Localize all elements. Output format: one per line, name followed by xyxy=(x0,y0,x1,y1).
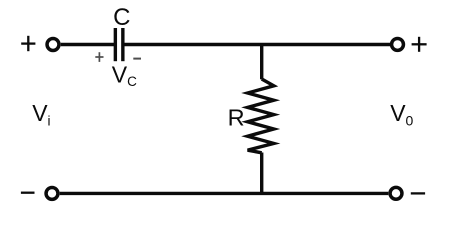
svg-text:VC: VC xyxy=(112,61,137,88)
capacitor minus mark xyxy=(133,58,141,60)
capacitor C xyxy=(115,28,123,61)
svg-text:V0: V0 xyxy=(390,100,413,129)
svg-text:R: R xyxy=(228,105,245,131)
node - (bottom-left polarity sign) xyxy=(21,192,35,194)
terminal (input bottom) xyxy=(46,187,58,199)
wire (terminal to capacitor) xyxy=(61,43,115,46)
wire (resistor bottom lead) xyxy=(260,153,263,194)
node - (bottom-right polarity sign) xyxy=(411,192,425,194)
wire (capacitor to output terminal, passes node A) xyxy=(124,43,392,46)
wire (resistor top lead) xyxy=(260,45,263,80)
svg-text:Vi: Vi xyxy=(32,100,50,129)
svg-text:C: C xyxy=(113,4,130,31)
capacitor plus mark xyxy=(95,52,103,62)
node + (top-left polarity sign) xyxy=(21,36,35,51)
node + (top-right polarity sign) xyxy=(412,37,427,52)
terminal (input top) xyxy=(47,39,59,51)
terminal (output top) xyxy=(392,38,404,50)
resistor R (zigzag body) xyxy=(248,79,274,153)
wire (bottom rail) xyxy=(60,192,389,195)
terminal (output bottom) xyxy=(390,187,402,199)
